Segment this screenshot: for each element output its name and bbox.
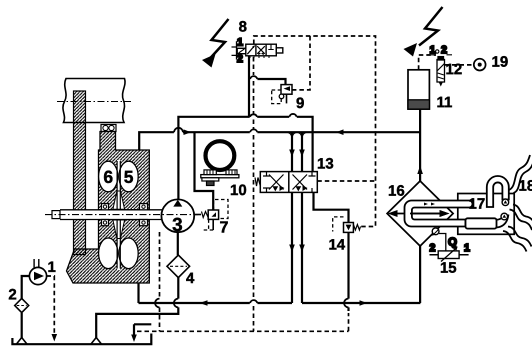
svg-text:15: 15 xyxy=(440,260,457,277)
svg-text:1: 1 xyxy=(47,259,55,276)
svg-text:2: 2 xyxy=(237,53,243,65)
svg-text:8: 8 xyxy=(239,18,247,35)
svg-text:3: 3 xyxy=(172,215,183,236)
svg-text:2: 2 xyxy=(8,286,16,303)
svg-text:1: 1 xyxy=(464,242,470,254)
svg-text:1: 1 xyxy=(430,44,436,56)
svg-text:7: 7 xyxy=(219,219,228,236)
svg-text:2: 2 xyxy=(429,242,435,254)
svg-text:Q: Q xyxy=(448,237,457,249)
svg-text:1: 1 xyxy=(237,36,243,48)
svg-text:6: 6 xyxy=(103,167,113,187)
svg-text:4: 4 xyxy=(186,270,195,287)
svg-text:9: 9 xyxy=(296,95,304,112)
svg-text:18: 18 xyxy=(518,178,532,195)
svg-text:5: 5 xyxy=(124,167,134,187)
svg-text:12: 12 xyxy=(446,61,463,78)
svg-text:10: 10 xyxy=(230,182,247,199)
svg-text:13: 13 xyxy=(317,156,334,173)
svg-text:14: 14 xyxy=(328,237,345,254)
svg-text:16: 16 xyxy=(388,183,405,200)
svg-text:19: 19 xyxy=(492,54,509,71)
svg-text:11: 11 xyxy=(437,94,453,111)
svg-text:17: 17 xyxy=(468,196,485,213)
svg-text:2: 2 xyxy=(441,44,447,56)
